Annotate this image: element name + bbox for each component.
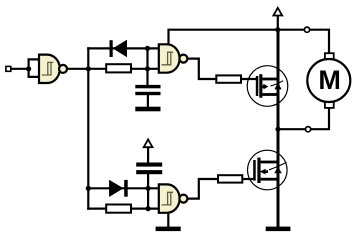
svg-text:M: M [318,65,341,95]
